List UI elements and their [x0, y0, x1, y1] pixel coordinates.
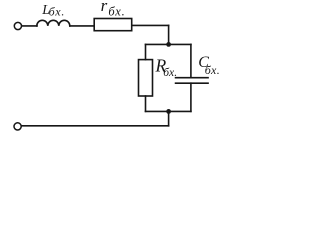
resistor Rвх (shunt box) [139, 60, 153, 96]
wire inductor to resistor rвх [70, 25, 94, 27]
capacitor Cвх bottom plate [176, 82, 208, 84]
capacitor Cвх top plate [176, 77, 208, 79]
wire capacitor to bottom rail [190, 83, 192, 111]
inductor Lвх [37, 20, 70, 26]
svg-text:бх.: бх. [108, 5, 125, 19]
label Cвх [198, 54, 220, 77]
input terminal top-left [14, 22, 21, 29]
label rвх [101, 0, 126, 19]
wire Rвх to bottom rail [145, 96, 147, 111]
wire resistor to top corner [132, 24, 169, 26]
wire rail to Rвх [145, 44, 147, 59]
bottom return wire [22, 125, 169, 127]
svg-text:бх.: бх. [205, 63, 219, 77]
label Rвх [155, 55, 178, 79]
junction node top [166, 42, 171, 47]
wire terminal to inductor [22, 25, 37, 27]
resistor rвх (series box) [94, 19, 132, 31]
bottom rail of parallel group [146, 110, 191, 112]
junction node bottom [166, 109, 171, 114]
label Lвх [41, 2, 65, 19]
wire down to top rail [168, 25, 170, 44]
top rail of parallel group [146, 43, 191, 45]
input terminal bottom-left [14, 123, 21, 130]
svg-text:бх.: бх. [49, 5, 66, 19]
svg-text:r: r [101, 0, 108, 15]
wire bottom junction down to return wire [168, 111, 170, 125]
wire top rail to capacitor Cвх [190, 44, 192, 77]
